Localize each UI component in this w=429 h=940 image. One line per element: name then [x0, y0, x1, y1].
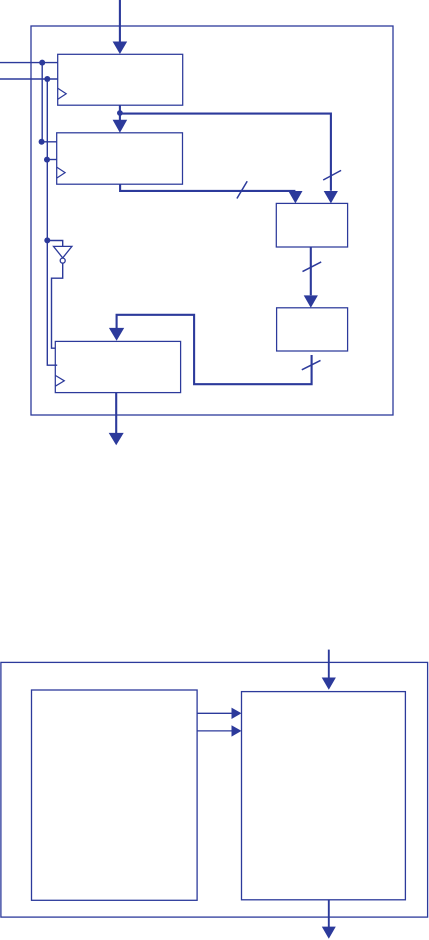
outer boundary box (top diagram)	[31, 26, 393, 415]
wire: signal 1 left block to right block	[197, 712, 232, 714]
wire: stub into register B second input	[47, 159, 57, 161]
bus slash on multiplier right input	[323, 170, 341, 180]
wire: adder output hook around to register C	[117, 315, 312, 384]
arrowhead: into multiplier left input	[288, 191, 302, 203]
right block	[242, 692, 406, 900]
wire: register A output across to multiplier	[120, 114, 331, 191]
arrowhead: into register C	[109, 328, 124, 341]
register A	[58, 54, 183, 105]
wire: register C output (leaves boundary)	[115, 393, 117, 434]
arrowhead: final output of right block	[322, 927, 336, 939]
adder box	[277, 308, 348, 351]
arrowhead: signal 2	[232, 725, 242, 736]
wire: output of right block	[328, 900, 330, 927]
wire: signal 2 left block to right block	[197, 730, 232, 732]
wire: register B output to multiplier left input	[120, 184, 295, 191]
left block	[32, 690, 198, 900]
outer boundary box (bottom diagram)	[1, 662, 428, 917]
arrowhead: into right block	[322, 678, 336, 690]
wire: input 2 (horizontal from left edge)	[0, 78, 58, 80]
clock wedge register A	[58, 88, 67, 99]
wire: inverter output to register C	[52, 263, 63, 348]
wire: top input into register A	[119, 0, 121, 43]
inverter bubble	[60, 258, 65, 263]
arrowhead: into adder	[304, 295, 318, 307]
wire: input into right block	[328, 650, 330, 678]
register C	[55, 341, 180, 392]
bus slash on adder output	[302, 360, 321, 369]
node: junction at inverter tap	[44, 237, 50, 243]
node: junction on input 2	[44, 76, 50, 82]
bus slash on multiplier output	[303, 262, 322, 272]
bus slash on multiplier left input wire	[237, 181, 247, 198]
arrowhead: final output	[109, 433, 124, 445]
wire: inverter input	[47, 241, 62, 247]
wire: input-2 branch down (long vertical to register C)	[47, 79, 57, 365]
wire: register A output down to register B	[119, 105, 121, 121]
node: junction at register B input 1	[39, 139, 45, 145]
arrowhead: top input	[113, 42, 128, 55]
clock wedge register C	[55, 375, 64, 386]
wire: input 1 (horizontal from left edge)	[0, 62, 58, 64]
clock wedge register B	[57, 167, 65, 178]
node: junction on input 1	[39, 60, 45, 66]
arrowhead: into register B	[113, 120, 128, 133]
register B	[57, 133, 183, 184]
arrowhead: signal 1	[232, 708, 242, 719]
inverter (triangle)	[54, 246, 72, 258]
multiplier box	[276, 203, 347, 247]
arrowhead: into multiplier right input	[324, 191, 338, 203]
node: junction on register A output	[117, 110, 123, 116]
wire: multiplier output down to adder	[310, 247, 312, 295]
node: junction at register B input 2	[44, 157, 50, 163]
wire: input-1 branch down to register B	[42, 63, 57, 142]
